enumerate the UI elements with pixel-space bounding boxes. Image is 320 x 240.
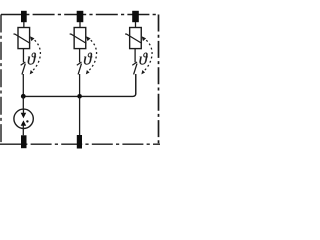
junction node 2 xyxy=(77,94,82,99)
switch blade xyxy=(22,64,25,75)
wire bus to terminal N xyxy=(79,96,81,135)
varistor slash xyxy=(125,34,142,43)
spark gap electrode dot xyxy=(26,120,28,122)
wire to bus xyxy=(79,74,81,96)
spark gap bottom electrode arrow xyxy=(21,120,27,125)
terminal N xyxy=(77,135,82,149)
switch blade xyxy=(78,64,81,75)
wire xyxy=(23,22,25,28)
enclosure border bottom xyxy=(0,143,160,145)
wire to bus xyxy=(22,74,24,96)
wire xyxy=(22,49,24,63)
thermal dashed arc xyxy=(31,38,40,72)
terminal L2 xyxy=(77,11,84,22)
terminal L3 xyxy=(132,11,139,22)
arc arrowhead bottom xyxy=(30,70,34,74)
varistor slash xyxy=(70,34,87,43)
varistor RV1 xyxy=(18,28,30,49)
thermal symbol ϑ xyxy=(84,53,92,65)
switch contact tick xyxy=(21,62,26,65)
varistor RV3 xyxy=(130,28,142,49)
spark gap F1 circle xyxy=(14,109,33,128)
thermal symbol ϑ xyxy=(139,53,147,65)
arc arrowhead bottom xyxy=(86,70,90,74)
wire spark gap to terminal PE xyxy=(22,125,24,135)
switch blade xyxy=(134,64,137,75)
switch contact tick xyxy=(132,62,137,65)
enclosure border top xyxy=(1,14,159,16)
arc arrowhead top xyxy=(30,36,35,41)
bus wire N xyxy=(23,74,136,96)
wire xyxy=(134,49,136,63)
branch 3 (L3) xyxy=(125,11,152,95)
wire xyxy=(79,49,81,63)
varistor slash xyxy=(14,34,31,43)
enclosure border left xyxy=(0,15,2,145)
varistor RV2 xyxy=(74,28,86,49)
arc arrowhead bottom xyxy=(141,70,145,74)
wire xyxy=(79,22,81,28)
junction node 1 xyxy=(21,94,26,99)
wire xyxy=(135,22,137,28)
switch contact tick xyxy=(77,62,82,65)
branch 2 (L2) xyxy=(70,11,97,97)
enclosure border right xyxy=(158,15,160,145)
wire into spark gap top xyxy=(22,109,24,114)
branch 1 (L1) xyxy=(14,11,41,97)
wire bus to spark gap xyxy=(22,96,24,114)
wire to bus corner xyxy=(135,74,137,94)
thermal dashed arc xyxy=(87,38,96,72)
terminal PE xyxy=(21,135,27,148)
thermal dashed arc xyxy=(143,38,152,72)
terminal L1 xyxy=(21,11,27,22)
arc arrowhead top xyxy=(142,36,147,41)
spark gap top electrode arrow xyxy=(21,113,27,118)
arc arrowhead top xyxy=(86,36,91,41)
thermal symbol ϑ xyxy=(28,53,36,65)
